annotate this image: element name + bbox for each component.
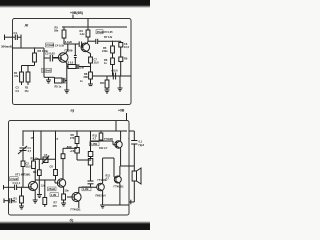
column x90 chain b <box>90 131 92 152</box>
svg-text:1,2В: 1,2В <box>51 193 57 197</box>
svg-text:R5 1к: R5 1к <box>55 85 62 89</box>
svg-text:С3 5,0: С3 5,0 <box>66 62 74 65</box>
wire input bus a <box>12 47 44 49</box>
terminal right bottom b <box>129 201 134 203</box>
svg-text:+9В: +9В <box>118 109 125 113</box>
frame of schematic b <box>9 121 130 216</box>
svg-text:1,25мВ: 1,25мВ <box>42 69 51 73</box>
svg-text:10,0: 10,0 <box>94 61 100 65</box>
label boxed level 1 a <box>42 68 52 72</box>
svg-text:240к: 240к <box>102 49 108 53</box>
VT2 emitter chain a <box>87 52 90 54</box>
resistor R1 a <box>21 66 23 73</box>
transistor VT2 b <box>57 179 65 187</box>
transistor VT1 b <box>28 181 37 190</box>
svg-text:R12 4,7: R12 4,7 <box>99 147 108 150</box>
svg-text:R2 10к: R2 10к <box>31 157 40 161</box>
svg-text:10,0: 10,0 <box>26 165 32 169</box>
transistor VT2 a <box>81 43 90 52</box>
svg-text:300мкВ: 300мкВ <box>1 45 13 49</box>
drop resistor R4 a <box>87 27 89 30</box>
svg-text:+0,1мВ: +0,1мВ <box>64 41 72 44</box>
wire x44 down a <box>43 58 45 77</box>
svg-text:1,2к: 1,2к <box>80 32 86 36</box>
label boxed in b <box>10 177 19 181</box>
boxed level near VT3 b <box>82 187 91 191</box>
output transistor VT6 b <box>114 176 121 183</box>
svg-text:R4: R4 <box>33 170 37 174</box>
svg-text:Д9В: Д9В <box>67 145 72 149</box>
junction dots <box>20 26 125 188</box>
resistor R2 a <box>27 66 29 73</box>
svg-text:С1 0,1: С1 0,1 <box>13 181 21 185</box>
output transistor VT5 b <box>115 141 122 148</box>
svg-text:VT1 МП39Б: VT1 МП39Б <box>15 173 30 177</box>
supply +9V entry a <box>72 15 74 20</box>
boxed levels mid b <box>48 187 57 191</box>
bottom black bar <box>0 224 150 230</box>
svg-text:47к: 47к <box>14 74 19 78</box>
svg-text:25мВ: 25мВ <box>48 187 55 191</box>
VT1 emitter b <box>34 191 36 201</box>
driver VT3 b <box>72 192 81 201</box>
output line a <box>92 75 131 77</box>
svg-text:Ж: Ж <box>24 22 29 27</box>
svg-text:ГТ309: ГТ309 <box>65 48 73 52</box>
VT1 collector to VT2 base b <box>35 179 55 181</box>
svg-text:R7: R7 <box>54 200 58 204</box>
label on wire44 a <box>46 43 54 47</box>
svg-text:0,45В: 0,45В <box>90 142 97 146</box>
svg-text:ГТ402Б: ГТ402Б <box>104 138 113 141</box>
svg-text:1Т: 1Т <box>31 136 34 140</box>
column x120 a <box>120 41 122 42</box>
feedback branch 1 a <box>67 66 68 68</box>
speaker wire + cap outside b <box>129 130 134 132</box>
output node wire b <box>121 165 135 167</box>
VT1 emitter wire a <box>66 62 67 64</box>
cap C3 a <box>74 44 76 56</box>
ground stub mid a <box>48 77 50 80</box>
svg-text:1,5к: 1,5к <box>41 184 46 187</box>
cap C2 b <box>21 161 25 167</box>
svg-text:С6: С6 <box>50 165 54 169</box>
stage2 wires b <box>40 131 42 159</box>
svg-text:10к: 10к <box>65 189 70 193</box>
svg-text:С5: С5 <box>44 153 48 157</box>
resistor R11 a <box>106 76 108 80</box>
column x101 b <box>100 131 102 133</box>
ground right a <box>119 76 121 88</box>
VT2 collector chain b <box>63 147 77 149</box>
transistor VT1 a <box>58 53 68 63</box>
svg-text:51к: 51к <box>13 200 18 204</box>
+V rail a <box>62 26 127 28</box>
mid column x77 b <box>76 131 78 137</box>
boxed level right a <box>96 30 103 34</box>
svg-text:С5 0,05: С5 0,05 <box>104 30 114 34</box>
svg-text:б): б) <box>70 218 74 223</box>
svg-text:+С8: +С8 <box>70 149 75 153</box>
svg-text:С7: С7 <box>55 137 59 141</box>
resistor R3 a <box>34 48 36 53</box>
svg-text:2,5мВ: 2,5мВ <box>46 43 54 47</box>
svg-text:270: 270 <box>70 136 75 140</box>
VT2 emitter resistor b <box>63 187 65 194</box>
svg-text:4,7: 4,7 <box>28 149 32 153</box>
svg-text:ГТ403Б: ГТ403Б <box>71 208 81 212</box>
input terminal a <box>4 35 6 41</box>
svg-text:4,7: 4,7 <box>93 137 97 141</box>
input terminal b <box>3 185 5 190</box>
drop resistor R2(39k) a <box>63 27 65 30</box>
svg-text:ГТ402Б: ГТ402Б <box>114 185 124 189</box>
svg-text:С1: С1 <box>14 31 18 35</box>
svg-text:R11: R11 <box>100 81 105 85</box>
svg-text:1,2В: 1,2В <box>83 187 89 191</box>
feedback branch 2 a <box>44 76 55 78</box>
svg-text:С2 0,05: С2 0,05 <box>45 52 55 56</box>
coupling cap C4 a <box>78 42 80 48</box>
svg-text:10,0: 10,0 <box>124 45 130 49</box>
svg-text:R9: R9 <box>124 57 128 61</box>
svg-text:ГД-6: ГД-6 <box>139 143 145 147</box>
supply entry b <box>126 113 128 121</box>
boxed level mid b <box>90 142 100 146</box>
trimmer C5 b <box>43 157 48 163</box>
+V rail b <box>23 130 127 132</box>
cap C5 a <box>88 40 96 42</box>
resistor to ground x44.8 b <box>44 180 46 198</box>
svg-text:0,5: 0,5 <box>16 90 20 93</box>
resistor bias b <box>21 187 23 196</box>
frame of schematic a <box>13 19 132 105</box>
transistor VT4 b <box>97 183 105 191</box>
svg-text:+10,0: +10,0 <box>111 69 118 73</box>
svg-text:П602АН: П602АН <box>96 194 106 198</box>
svg-text:+9В(6В): +9В(6В) <box>70 11 83 15</box>
VT4 emitter ground b <box>100 204 105 206</box>
svg-text:2,5мВ: 2,5мВ <box>10 177 18 181</box>
top black bar <box>0 0 150 5</box>
svg-text:R7 13к: R7 13к <box>104 35 113 39</box>
svg-text:470: 470 <box>53 204 58 208</box>
lower input terminal b <box>3 199 5 204</box>
resistor chain x112 a <box>112 41 114 46</box>
drop resistor mid b <box>38 159 40 170</box>
VT1 collector wire a <box>66 50 68 53</box>
VT1 collector load b <box>34 169 36 183</box>
svg-text:680: 680 <box>84 75 89 79</box>
svg-text:39к: 39к <box>54 29 59 33</box>
speaker b <box>132 171 136 181</box>
trimmer cap C1 b <box>20 147 27 149</box>
capacitor C2 a <box>49 55 51 62</box>
cap C5 col b <box>54 170 58 176</box>
